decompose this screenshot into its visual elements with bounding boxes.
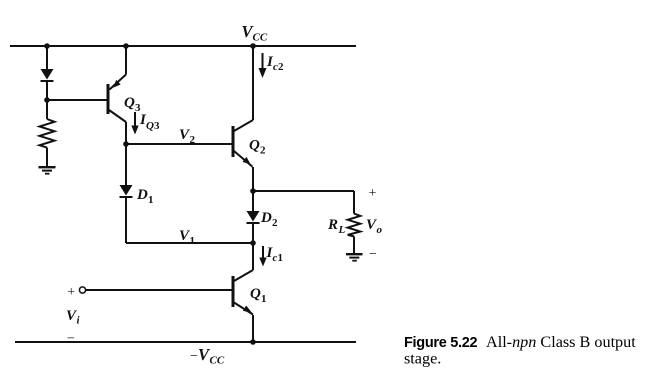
svg-text:R: R (327, 217, 338, 233)
svg-text:2: 2 (272, 217, 278, 229)
svg-text:1: 1 (190, 235, 196, 247)
svg-text:−: − (67, 332, 75, 347)
svg-text:−: − (369, 247, 377, 262)
svg-text:2: 2 (190, 134, 196, 146)
svg-text:1: 1 (261, 293, 267, 305)
svg-text:+: + (369, 186, 377, 201)
svg-text:D: D (136, 187, 148, 203)
svg-text:1: 1 (278, 252, 284, 264)
svg-text:+: + (67, 285, 75, 300)
svg-text:2: 2 (260, 145, 266, 157)
svg-text:1: 1 (148, 194, 154, 206)
svg-text:All-npn Class B output: All-npn Class B output (486, 333, 636, 351)
svg-text:CC: CC (210, 355, 225, 367)
svg-text:CC: CC (253, 32, 268, 44)
svg-text:−: − (190, 349, 198, 364)
svg-text:Q: Q (250, 286, 261, 302)
svg-text:stage.: stage. (404, 350, 441, 368)
svg-text:Q: Q (146, 120, 154, 132)
svg-text:Q: Q (249, 138, 260, 154)
svg-text:L: L (338, 224, 346, 236)
svg-text:3: 3 (154, 120, 160, 132)
svg-text:o: o (377, 224, 383, 236)
svg-text:D: D (260, 210, 272, 226)
svg-text:2: 2 (278, 61, 284, 73)
svg-text:Q: Q (124, 95, 135, 111)
